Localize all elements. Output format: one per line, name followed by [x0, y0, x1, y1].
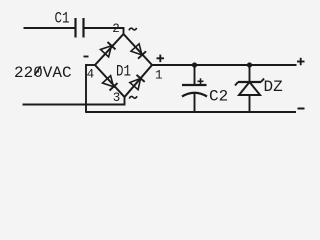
AC symbol ~ at pin 3	[129, 96, 137, 98]
svg-text:4: 4	[87, 68, 95, 82]
svg-text:C2: C2	[209, 87, 228, 105]
wire: C1 to bridge AC input pin 2	[85, 28, 124, 34]
label DZ	[264, 78, 284, 96]
wire: positive rail down to DZ cathode	[249, 65, 251, 82]
label D1	[116, 62, 131, 80]
label C1	[55, 9, 70, 27]
wire: positive rail down to C2	[194, 65, 196, 85]
plus polarity mark at pin 1	[157, 55, 165, 63]
wire: AC line 1 from left to C1	[24, 27, 75, 29]
pin label 1	[155, 69, 163, 83]
diode D1b (top-right arm, anode pin2 side, cathode pin1 side)	[131, 44, 146, 59]
wire: AC line 2 from left to bridge pin 3	[23, 97, 125, 105]
pin label 2	[112, 22, 120, 36]
junction node: DZ to positive rail	[247, 62, 252, 67]
wire: positive top rail from bridge pin 1 to output	[152, 64, 297, 66]
diode D1c (bottom-left arm, anode pin4 side, cathode pin3 side)	[103, 76, 118, 91]
bridge rectifier D1 diamond outline	[95, 34, 152, 97]
svg-text:DZ: DZ	[264, 78, 284, 96]
capacitor C2 (polarized)	[182, 85, 207, 97]
minus output terminal mark	[298, 108, 305, 110]
AC symbol ~ at pin 2	[129, 28, 137, 30]
plus output terminal mark	[297, 58, 305, 65]
wire: negative vertical drop from pin 4	[85, 64, 87, 112]
svg-text:1: 1	[155, 69, 163, 83]
label C2	[209, 87, 228, 105]
svg-text:D1: D1	[116, 62, 131, 80]
wire: bridge pin 4 stub to negative rail drop	[85, 64, 95, 66]
capacitor C1	[76, 18, 84, 38]
zener diode DZ	[235, 79, 264, 96]
diode D1d (bottom-right arm, anode pin3 side, cathode pin1 side)	[130, 75, 145, 90]
plus polarity mark of C2	[198, 78, 204, 84]
wire: C2 down to negative rail	[194, 93, 196, 112]
minus polarity mark at pin 4	[84, 56, 89, 58]
pin label 3	[113, 91, 121, 105]
label 220VAC	[14, 64, 72, 82]
svg-text:2: 2	[112, 22, 120, 36]
svg-text:C1: C1	[55, 9, 70, 27]
diode D1a (top-left arm, anode pin4 side, cathode pin2 side)	[101, 42, 116, 57]
svg-text:220VAC: 220VAC	[14, 64, 72, 82]
pin label 4	[87, 68, 95, 82]
svg-text:3: 3	[113, 91, 121, 105]
wire: DZ anode down to negative rail	[249, 95, 251, 112]
wire: negative bottom rail	[85, 111, 296, 113]
junction node: C2 to positive rail	[192, 62, 197, 67]
